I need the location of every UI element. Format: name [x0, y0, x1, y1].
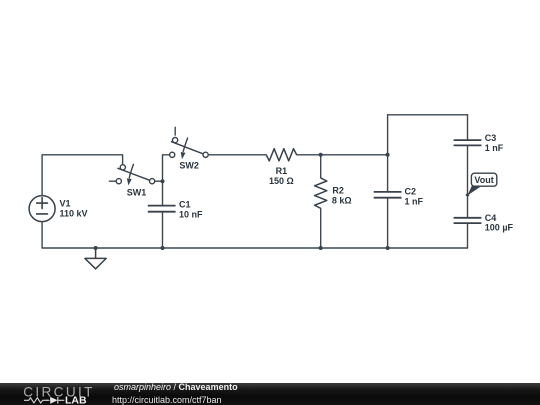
- svg-text:10 nF: 10 nF: [179, 209, 203, 219]
- junction node X (SW1 common / C1): [161, 179, 165, 183]
- svg-text:R1: R1: [276, 166, 288, 176]
- wire: [42, 247, 467, 249]
- voltage source V1: [29, 196, 55, 222]
- wire: [387, 115, 389, 192]
- junction C2 top: [386, 153, 390, 157]
- junction C2 to ground rail: [386, 246, 390, 250]
- capacitor C4: [454, 218, 482, 223]
- svg-text:8 kΩ: 8 kΩ: [332, 195, 352, 205]
- wire: [467, 145, 469, 217]
- wire: [387, 198, 389, 248]
- resistor R1: [266, 149, 296, 161]
- wire: [388, 114, 468, 116]
- wire: [162, 212, 164, 248]
- svg-text:1 nF: 1 nF: [405, 196, 424, 206]
- svg-text:SW1: SW1: [127, 187, 147, 197]
- net flag Vout: [465, 173, 496, 197]
- footer url: [112, 396, 222, 405]
- junction node Y (R1/R2): [319, 153, 323, 157]
- svg-text:C1: C1: [179, 200, 191, 210]
- svg-text:R2: R2: [332, 186, 344, 196]
- svg-text:C3: C3: [485, 133, 497, 143]
- footer bar: [0, 383, 540, 405]
- wire: [109, 180, 116, 182]
- capacitor C3: [454, 140, 482, 145]
- wire: [467, 115, 469, 140]
- wire: [42, 155, 123, 196]
- svg-text:110 kV: 110 kV: [60, 209, 88, 219]
- svg-text:C4: C4: [485, 213, 497, 223]
- wire: [467, 223, 469, 248]
- wire: [163, 155, 170, 206]
- switch SW1: [116, 164, 154, 185]
- wire: [297, 154, 388, 156]
- svg-text:150 Ω: 150 Ω: [269, 176, 294, 186]
- junction R2 to ground rail: [319, 246, 323, 250]
- wire: [320, 209, 322, 249]
- junction ground symbol: [94, 246, 98, 250]
- junction C1 to ground rail: [161, 246, 165, 250]
- svg-text:V1: V1: [60, 198, 71, 208]
- capacitor C1: [148, 206, 176, 212]
- footer credit line: [114, 383, 238, 392]
- resistor R2: [315, 178, 327, 208]
- svg-text:SW2: SW2: [179, 161, 199, 171]
- wire: [208, 154, 266, 156]
- svg-text:Vout: Vout: [474, 175, 493, 185]
- svg-text:1 nF: 1 nF: [485, 143, 504, 153]
- wire: [174, 127, 176, 135]
- wire: [41, 222, 43, 249]
- svg-text:C2: C2: [405, 187, 417, 197]
- wire: [320, 155, 322, 178]
- svg-text:100 µF: 100 µF: [485, 223, 514, 233]
- switch SW2: [170, 138, 209, 160]
- wire: [155, 180, 163, 182]
- capacitor C2: [374, 192, 402, 198]
- ground: [85, 248, 106, 269]
